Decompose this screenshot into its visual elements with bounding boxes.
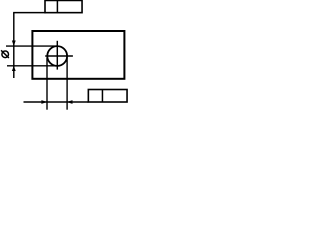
arrowhead up at bottom tangent [12,66,16,71]
diameter symbol [1,50,9,58]
extension line bottom tangent [7,65,57,67]
extension line right tangent vertical [66,58,68,110]
arrowhead down at top tangent [12,41,16,47]
text box bottom [88,90,127,103]
arrowhead right at left tangent [41,100,47,104]
centerline horizontal [45,55,73,57]
leader line horizontal to top box [13,12,46,14]
arrowhead left at right tangent [67,100,73,104]
text box top divider [56,0,58,12]
centerline vertical [56,41,58,70]
hole circle [47,46,67,66]
part outline rectangle [32,31,124,79]
extension line top tangent [6,45,58,47]
dimension line bottom horizontal [24,101,89,103]
text box top [45,0,82,12]
text box bottom divider [101,90,103,103]
dimension line vertical left [13,13,15,78]
extension line left tangent vertical [46,58,48,110]
